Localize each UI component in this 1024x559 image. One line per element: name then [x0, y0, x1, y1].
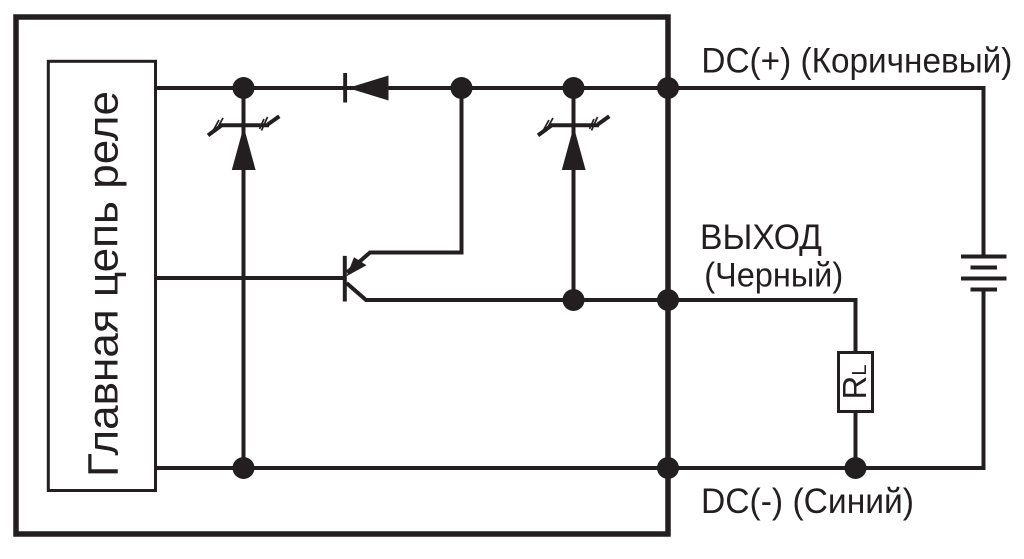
svg-text:Главная цепь реле: Главная цепь реле — [80, 91, 128, 477]
svg-text:ВЫХОД: ВЫХОД — [700, 218, 822, 257]
svg-text:(Черный): (Черный) — [704, 257, 843, 295]
svg-text:DC(+) (Коричневый): DC(+) (Коричневый) — [701, 42, 1012, 81]
svg-text:DC(-) (Синий): DC(-) (Синий) — [701, 482, 914, 521]
